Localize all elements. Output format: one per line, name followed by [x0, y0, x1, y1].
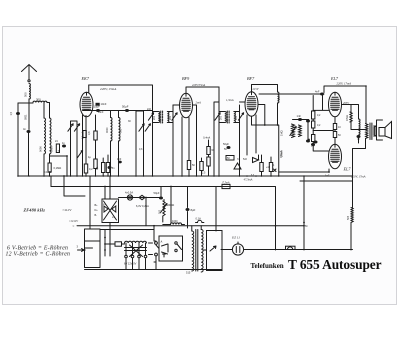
- power transformer left winding: [192, 231, 194, 271]
- wire el7 low left: [313, 145, 328, 152]
- vibrator box: [159, 236, 183, 261]
- svg-text:300: 300: [36, 97, 41, 101]
- wire det right: [293, 119, 309, 121]
- diode det: [253, 155, 259, 163]
- svg-text:7A: 7A: [237, 158, 240, 161]
- svg-text:0,1mA: 0,1mA: [81, 131, 85, 139]
- lamp diamond: [139, 195, 145, 199]
- svg-text:0,1MΩ: 0,1MΩ: [54, 166, 62, 170]
- svg-text:100: 100: [278, 95, 281, 100]
- coil 300b: [119, 118, 121, 142]
- det left resistors: [207, 147, 210, 155]
- wire shieldbox feed: [215, 187, 217, 232]
- EK7 cathode wires: [83, 115, 87, 176]
- OT secondary: [374, 126, 376, 136]
- B+ junction: [365, 85, 367, 87]
- svg-text:B-: B-: [95, 214, 98, 217]
- IFT2 left coil: [219, 112, 226, 123]
- IFT1 trimmer right: [172, 113, 177, 120]
- svg-text:1000Ω: 1000Ω: [167, 203, 175, 207]
- osc coil L1: [44, 118, 46, 154]
- cap 4nF b: [314, 141, 318, 144]
- BF7 pins: [247, 115, 256, 155]
- svg-text:6V 12V 0V: 6V 12V 0V: [124, 262, 137, 266]
- svg-text:50μF: 50μF: [223, 142, 229, 146]
- wire x90 down: [89, 176, 91, 229]
- svg-text:4x0,5A: 4x0,5A: [125, 191, 133, 195]
- svg-text:+12: +12: [266, 166, 271, 169]
- svg-text:10nF: 10nF: [101, 102, 107, 106]
- tube EZ11: [232, 244, 243, 255]
- det resistor b: [269, 163, 272, 172]
- svg-text:000: 000: [120, 128, 123, 133]
- svg-text:0,1MΩ: 0,1MΩ: [44, 171, 52, 174]
- svg-text:0000: 0000: [39, 146, 43, 152]
- svg-text:500: 500: [159, 209, 162, 214]
- resistor heater dropper: [105, 243, 115, 245]
- svg-text:1MΩ: 1MΩ: [280, 130, 284, 136]
- BF7 plate right wire: [259, 105, 265, 126]
- svg-text:200: 200: [153, 115, 156, 120]
- IFT2 core: [227, 111, 229, 123]
- shield box: [207, 231, 223, 271]
- IFT2 right coil: [234, 112, 240, 123]
- cap 4nF top: [320, 93, 324, 96]
- power transformer right winding: [201, 230, 203, 272]
- svg-text:A: A: [160, 240, 163, 244]
- resistor EK7 low: [94, 159, 97, 169]
- cap 4nF diag: [118, 161, 122, 164]
- wire input node: [18, 102, 33, 104]
- svg-text:12 V-Betrieb = C-Röhren: 12 V-Betrieb = C-Röhren: [6, 252, 71, 258]
- svg-text:500: 500: [24, 92, 28, 97]
- wire bridge bottom: [109, 223, 111, 257]
- svg-text:2nF: 2nF: [147, 108, 152, 111]
- svg-text:515: 515: [186, 271, 191, 275]
- arrow into box: [78, 249, 85, 252]
- IFT2 left wire: [218, 87, 220, 138]
- svg-text:0,1: 0,1: [96, 166, 99, 170]
- svg-text:8μF: 8μF: [191, 208, 196, 212]
- selector top wire: [100, 229, 154, 231]
- EL7 cathode junction: [328, 171, 330, 173]
- cap 4nF el7low: [311, 143, 315, 146]
- svg-text:1,5: 1,5: [9, 111, 13, 115]
- field coil top wire: [342, 105, 359, 120]
- wire 1000R feed: [170, 187, 172, 223]
- autotransformer: [125, 241, 147, 243]
- fuse 0,1A: [196, 220, 204, 222]
- cap 50uF lamp: [159, 197, 163, 200]
- osc coil L2: [50, 118, 52, 154]
- tube BF9: [180, 93, 193, 117]
- svg-text:200: 200: [235, 115, 238, 120]
- det coupling: [252, 125, 279, 176]
- svg-text:4nF: 4nF: [315, 90, 320, 94]
- supply box 220V 15mA: [89, 85, 153, 109]
- det tri: [234, 163, 241, 169]
- IFT2 wires down: [219, 105, 240, 176]
- plate coil 100: [278, 92, 279, 103]
- svg-text:BF7: BF7: [247, 76, 255, 81]
- BF9 cathode R: [102, 163, 105, 173]
- IFT1 right coil: [167, 112, 173, 123]
- svg-text:B+: B+: [95, 204, 99, 207]
- wire heater feed: [145, 198, 147, 226]
- svg-text:1000: 1000: [172, 220, 178, 223]
- svg-text:0,2: 0,2: [89, 167, 93, 171]
- svg-text:17,5mA: 17,5mA: [222, 181, 230, 184]
- lamp wires: [119, 197, 161, 199]
- svg-text:2mA: 2mA: [196, 101, 202, 105]
- BF9 left parts: [136, 111, 144, 176]
- wire antenna down: [28, 99, 30, 103]
- junction dots det: [264, 124, 266, 126]
- EL7 supply box: [324, 86, 366, 124]
- trimmer C osc: [77, 150, 82, 157]
- EK7 bias R: [83, 131, 86, 138]
- heater line: [77, 225, 304, 227]
- svg-text:5nF: 5nF: [243, 158, 248, 161]
- IFT1 trimmer left: [148, 113, 153, 120]
- svg-text:D+: D+: [95, 209, 99, 212]
- grid R stack: [312, 111, 315, 119]
- R 1000 wavy: [171, 223, 182, 225]
- field coil: [359, 119, 361, 135]
- IFT1 left wire: [152, 109, 154, 138]
- svg-text:200: 200: [169, 115, 172, 120]
- speaker: [377, 120, 383, 140]
- BF9 screen R: [187, 161, 190, 170]
- svg-text:0000: 0000: [106, 127, 109, 133]
- BF9 anode wire: [186, 87, 219, 93]
- BF9 cathode: [182, 117, 189, 176]
- bus B: [51, 187, 276, 251]
- EL7 grid resistors: [333, 124, 336, 130]
- input coil 300: [33, 101, 47, 102]
- wire osc L1 gnd: [43, 154, 45, 176]
- svg-text:3,6: 3,6: [87, 131, 91, 135]
- OT primary: [366, 124, 368, 139]
- svg-text:≈112V: ≈112V: [63, 208, 73, 212]
- svg-text:0,1A: 0,1A: [196, 217, 202, 221]
- resistor 0,1M grid: [49, 154, 51, 163]
- resistor 0,2M EK7: [84, 164, 87, 173]
- tube EK7: [80, 92, 93, 116]
- bottom return bus: [85, 269, 223, 271]
- svg-text:EL7: EL7: [330, 76, 339, 81]
- svg-text:≈: ≈: [73, 224, 75, 228]
- cap 50uF det: [227, 146, 231, 149]
- bottom bus: [244, 249, 353, 251]
- vibrator switch: [155, 242, 158, 245]
- wire to osc coils: [44, 103, 50, 119]
- svg-text:EL7: EL7: [343, 167, 352, 172]
- resistor 47k: [342, 105, 352, 113]
- svg-text:0000: 0000: [50, 146, 54, 152]
- wire antenna branch: [28, 103, 30, 130]
- grid cap blob: [96, 103, 100, 106]
- speaker wires: [374, 126, 376, 136]
- svg-text:EZ 11: EZ 11: [231, 236, 240, 240]
- pot 500: [163, 200, 165, 202]
- svg-text:220V/55mA: 220V/55mA: [192, 84, 205, 87]
- capacitor 50uF: [125, 109, 129, 112]
- IFT2 trimmer left: [215, 113, 220, 120]
- ground bus: [18, 175, 352, 177]
- svg-text:47,5mA: 47,5mA: [244, 178, 253, 182]
- dial lamp: [127, 195, 132, 200]
- wire left branch: [17, 103, 19, 176]
- det resistor a: [260, 163, 263, 172]
- svg-text:10μF: 10μF: [94, 104, 101, 108]
- label x det: [274, 169, 277, 172]
- wire x304 drop: [303, 176, 305, 250]
- bridge rectifier box: [102, 199, 119, 223]
- svg-text:505: 505: [347, 215, 350, 220]
- svg-text:0,4mA: 0,4mA: [203, 137, 211, 140]
- wire bridge stubs: [104, 187, 106, 200]
- wire drop x51: [50, 176, 52, 187]
- BF7 anode supply: [252, 85, 278, 93]
- band trimmers: [71, 121, 78, 176]
- IFT1 wires down: [153, 105, 174, 176]
- cap 5nF: [108, 166, 112, 169]
- det left resistor2: [200, 162, 203, 171]
- svg-text:47kΩ: 47kΩ: [346, 115, 349, 121]
- wire bridge top: [109, 176, 111, 199]
- svg-text:0801: 0801: [25, 114, 28, 120]
- bus junctions: [17, 175, 19, 177]
- transformer top wires: [192, 226, 201, 231]
- grid leak R: [106, 163, 109, 173]
- padder parts: [50, 156, 68, 176]
- svg-text:ZF480 kHz: ZF480 kHz: [23, 208, 46, 213]
- svg-text:20mA: 20mA: [280, 150, 284, 157]
- svg-text:T 655 Autosuper: T 655 Autosuper: [288, 257, 382, 272]
- antenna coil 500: [29, 84, 30, 100]
- capacitor 4nF ant: [27, 130, 31, 133]
- tube EL7 lower: [329, 144, 342, 168]
- svg-text:50μF: 50μF: [122, 104, 129, 108]
- BF9 plate right: [192, 105, 196, 176]
- wire EK7 anode top: [88, 85, 90, 93]
- wire y181: [300, 181, 353, 208]
- volume pot: [292, 124, 295, 138]
- coil 000: [111, 118, 113, 142]
- selector box: [85, 229, 101, 268]
- det box R: [226, 156, 234, 161]
- svg-text:≈ 6/12V: ≈ 6/12V: [69, 220, 78, 223]
- resistor 505: [351, 208, 353, 223]
- fuse right: [286, 247, 294, 250]
- svg-text:6,3V 0,25A: 6,3V 0,25A: [136, 204, 149, 208]
- cap 8uF: [186, 208, 190, 211]
- svg-text:4nF: 4nF: [117, 158, 122, 161]
- antenna: [22, 65, 37, 80]
- EK7 cathode R 3,6k: [94, 131, 97, 140]
- svg-text:50μF: 50μF: [154, 191, 160, 195]
- power transformer core: [196, 230, 198, 272]
- svg-text:1nF: 1nF: [297, 114, 302, 118]
- tube EL7 upper: [329, 92, 342, 116]
- svg-text:215V: 215V: [253, 88, 259, 91]
- svg-text:10nF: 10nF: [98, 111, 104, 114]
- wire plate to 4nF: [259, 93, 324, 95]
- wire y172: [279, 171, 329, 173]
- cap 4nF a: [306, 140, 310, 143]
- AVC line: [83, 110, 153, 112]
- capacitor 10uF: [96, 109, 100, 112]
- capacitor 1,5nF: [16, 112, 20, 115]
- R 17,5mA: [222, 184, 230, 188]
- svg-text:BF9: BF9: [182, 76, 190, 81]
- dot 275 b: [275, 225, 277, 227]
- BF9 grid wires: [173, 104, 180, 106]
- IFT2 trimmer right: [238, 113, 243, 120]
- svg-text:EK7: EK7: [81, 76, 90, 81]
- OT core: [370, 123, 372, 140]
- svg-text:Telefunken: Telefunken: [251, 262, 284, 270]
- IFT1 core: [161, 111, 163, 123]
- svg-text:1,3mA: 1,3mA: [226, 98, 234, 102]
- svg-text:200: 200: [220, 115, 223, 120]
- cap 1nF det: [298, 118, 302, 121]
- wire ant branch low: [28, 133, 30, 176]
- BF7 grid line: [214, 102, 245, 176]
- shield box wires: [203, 249, 232, 252]
- IFT1 left coil: [153, 112, 160, 123]
- tube BF7: [245, 92, 258, 116]
- wire mid connect: [64, 176, 85, 196]
